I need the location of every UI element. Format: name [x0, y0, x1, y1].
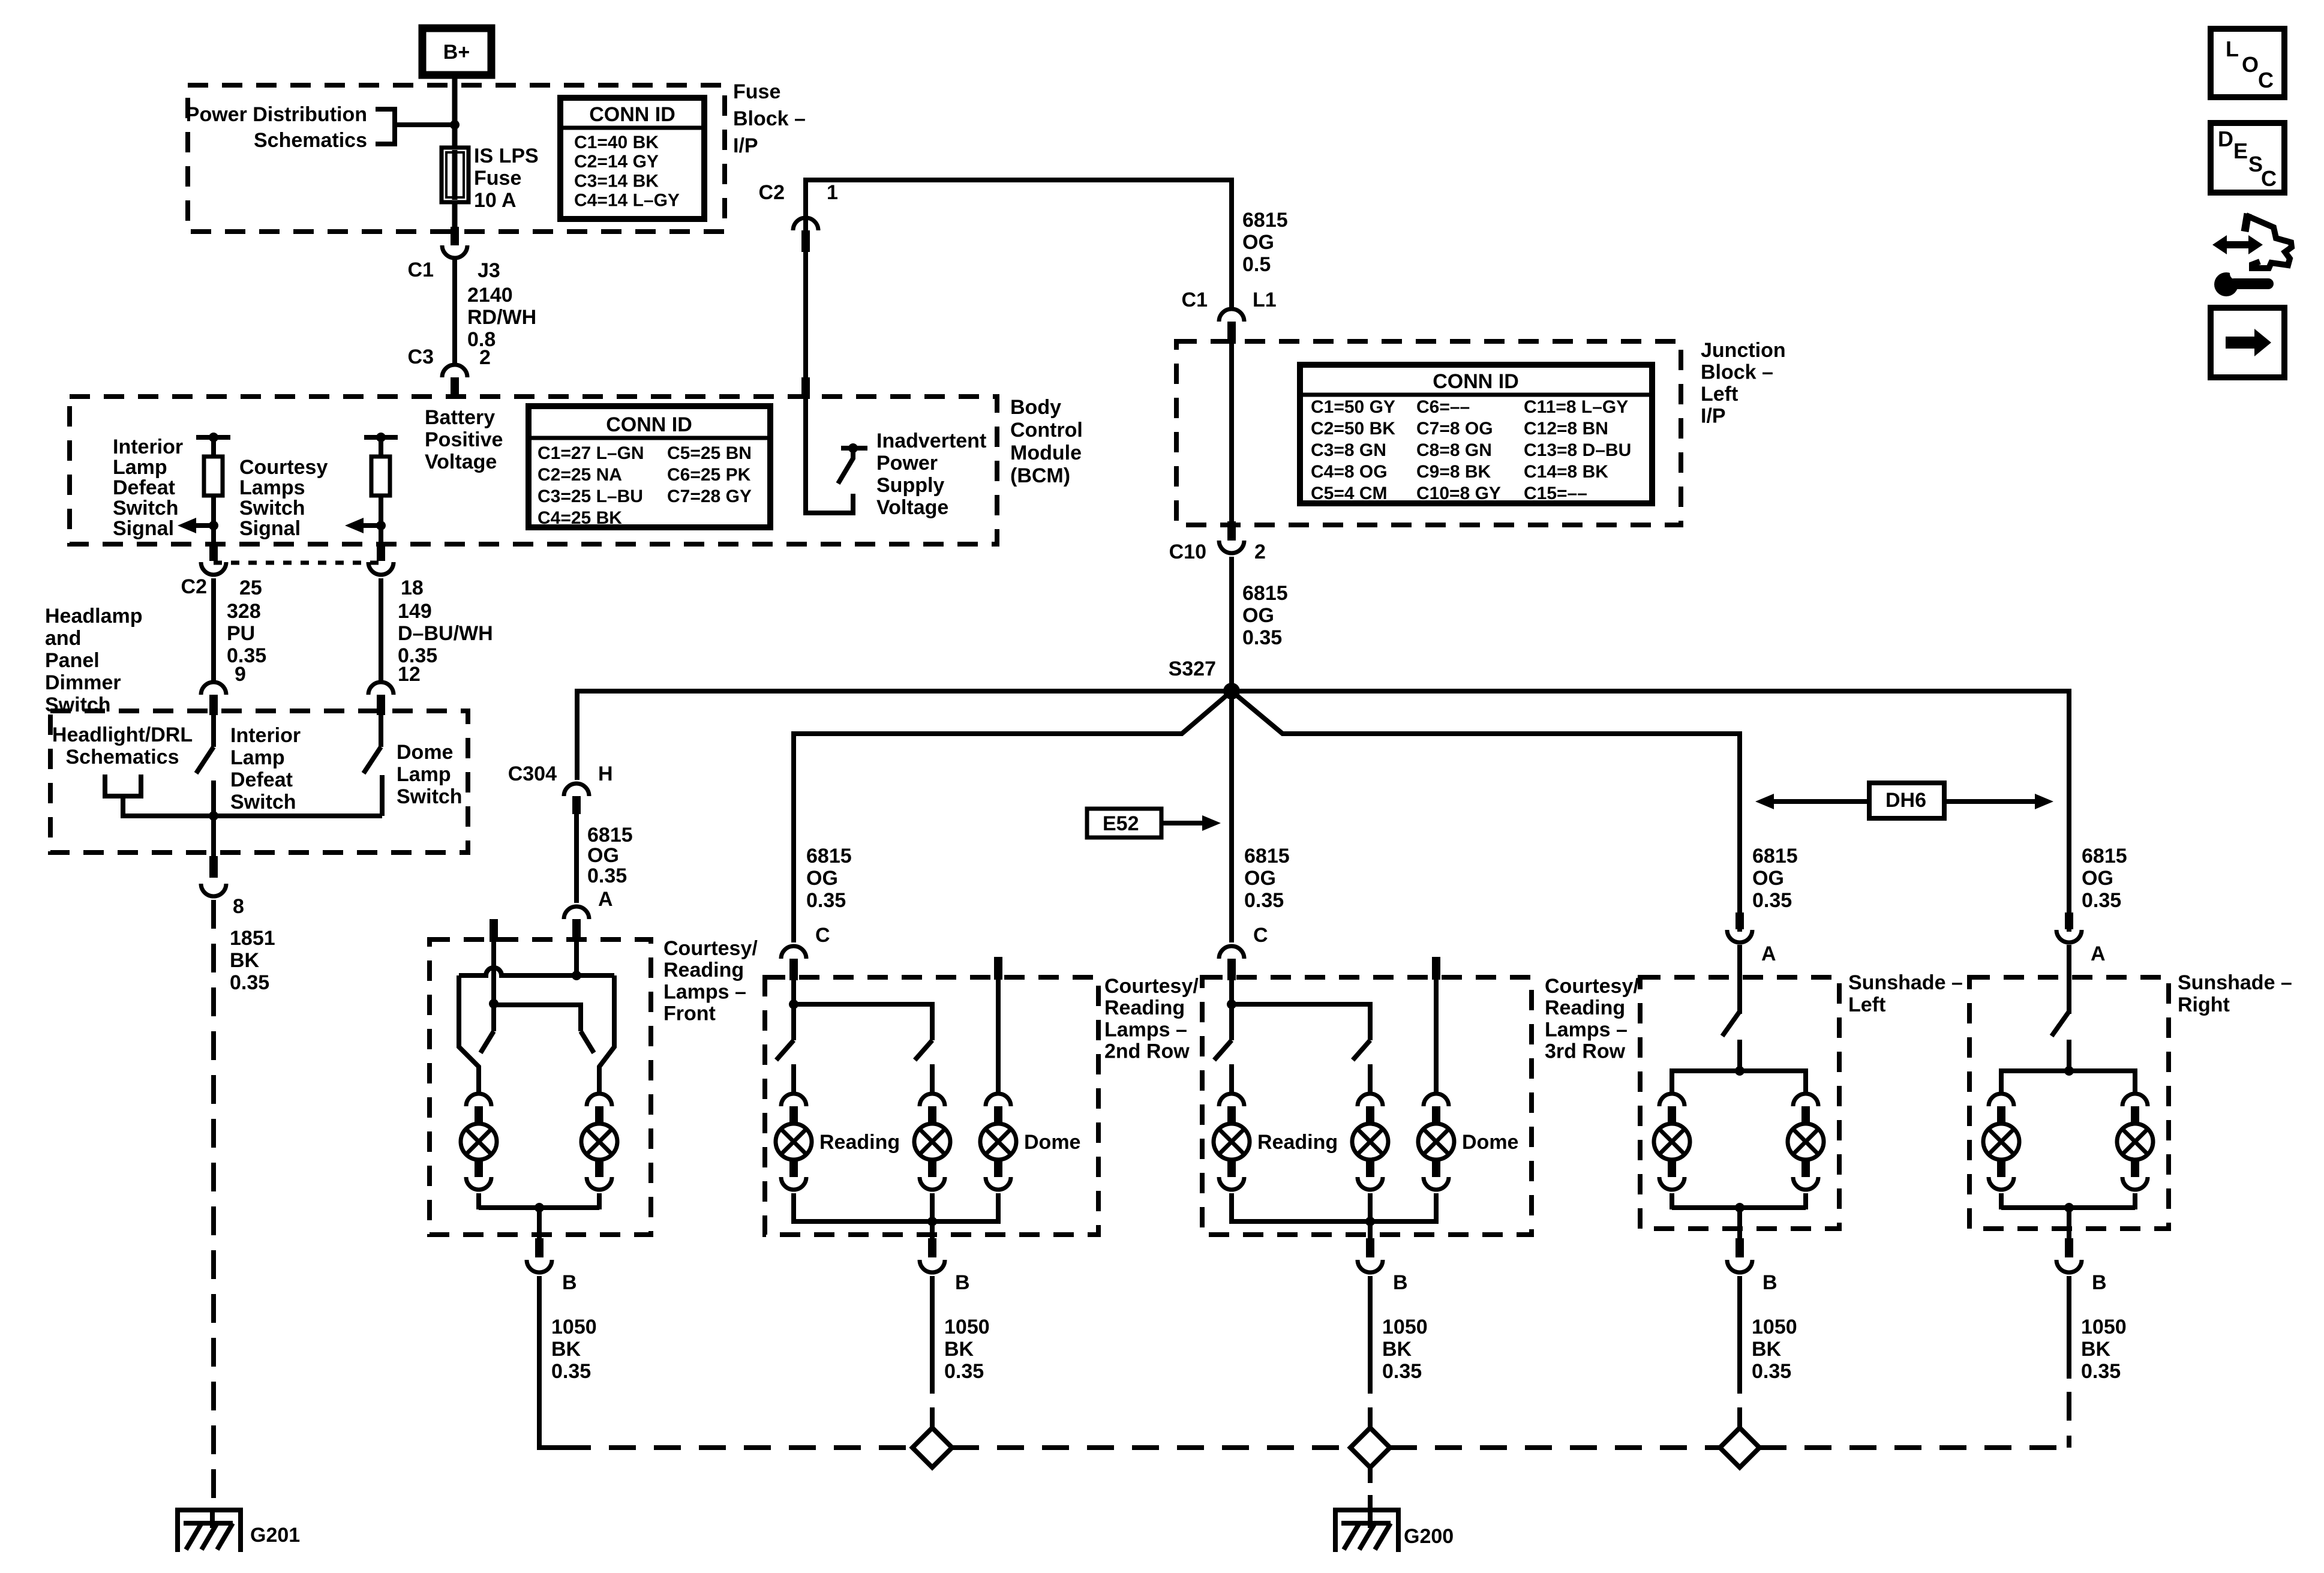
svg-text:C3=25 L–BU: C3=25 L–BU — [538, 487, 643, 506]
lamp left bulb Sunshade - Right — [1989, 1094, 2014, 1106]
svg-text:L: L — [2226, 37, 2239, 61]
wire T-bar to resistor — [379, 437, 383, 457]
icon vehicle double arrow — [2212, 235, 2263, 254]
wire 328 PU 0.35 — [211, 578, 216, 680]
wire B drop Sunshade - Left — [1737, 1208, 1742, 1238]
svg-text:C4=25 BK: C4=25 BK — [538, 508, 622, 528]
svg-text:D: D — [2218, 127, 2233, 151]
svg-text:C11=8 L–GY: C11=8 L–GY — [1524, 397, 1628, 417]
wire feed inside Courtesy/Reading Lamps - 3rd Row — [1229, 980, 1234, 1040]
svg-text:Front: Front — [663, 1002, 716, 1025]
svg-text:2: 2 — [479, 346, 491, 369]
svg-text:C1=40 BK: C1=40 BK — [574, 133, 659, 152]
connector C10 pin 2 (junction block output) — [1227, 521, 1236, 541]
connector pin 8 — [209, 856, 218, 878]
box Courtesy/Reading Lamps - 3rd Row (dashed) — [1202, 977, 1532, 1235]
svg-text:Voltage: Voltage — [425, 451, 497, 473]
ground G201 — [175, 1508, 243, 1512]
junction diamond 2nd row — [930, 1407, 935, 1429]
bracket headlight/DRL schematics — [105, 775, 141, 796]
wire link to middle lamp switch — [794, 1004, 932, 1040]
svg-text:I/P: I/P — [733, 134, 758, 157]
svg-text:Body: Body — [1010, 396, 1061, 419]
wire sunshade left drop — [1737, 731, 1742, 932]
table CONN ID (junction block) — [1300, 365, 1652, 503]
svg-text:L1: L1 — [1253, 289, 1277, 311]
wire 3rd row B 1050 BK — [1368, 1276, 1373, 1394]
svg-text:J3: J3 — [478, 259, 500, 282]
connector C1 / J3 (fuse block output) — [451, 227, 459, 245]
node dot switch feed — [489, 999, 499, 1008]
wire BCM C2-1 riser — [806, 180, 1232, 397]
svg-text:Headlamp: Headlamp — [45, 605, 143, 628]
svg-text:Left: Left — [1701, 383, 1738, 406]
svg-text:0.35: 0.35 — [1752, 1360, 1791, 1383]
wire resistor to junction — [211, 496, 216, 543]
svg-text:0.35: 0.35 — [227, 644, 266, 667]
box Junction Block - Left I/P (dashed) — [1176, 341, 1681, 525]
svg-text:DH6: DH6 — [1885, 789, 1926, 812]
pin stub front lamps switch feed — [490, 919, 498, 942]
stub C2-1 wire at BCM edge — [801, 377, 810, 399]
wire 2nd row B 1050 BK — [930, 1276, 935, 1394]
connector pin 12 — [368, 682, 394, 695]
lamp right bulb Sunshade - Right — [2122, 1094, 2148, 1106]
svg-text:Schematics: Schematics — [254, 129, 367, 152]
node B+ (battery positive terminal) — [422, 28, 491, 75]
dotted link connector C2 — [214, 561, 381, 565]
junction diamond sunshade left — [1737, 1407, 1742, 1429]
svg-text:C1: C1 — [1182, 289, 1208, 311]
svg-text:Lamps: Lamps — [239, 476, 305, 499]
svg-text:C6=––: C6=–– — [1416, 397, 1470, 417]
svg-text:1: 1 — [827, 181, 838, 204]
lamp middle bulb Courtesy/Reading Lamps - 3rd Row — [1358, 1094, 1383, 1106]
svg-text:B: B — [1393, 1271, 1408, 1294]
lamp front-left bulb — [466, 1094, 491, 1106]
svg-text:2nd Row: 2nd Row — [1104, 1040, 1190, 1063]
connector C304 / H — [564, 784, 589, 796]
svg-text:C304: C304 — [508, 763, 557, 785]
svg-text:C: C — [815, 924, 830, 947]
svg-text:Courtesy/: Courtesy/ — [1545, 975, 1639, 998]
svg-text:Battery: Battery — [425, 406, 495, 429]
wire S327 to 3rd row drop — [1229, 691, 1234, 942]
svg-text:Defeat: Defeat — [230, 769, 293, 791]
svg-text:C1: C1 — [408, 259, 434, 281]
svg-text:149: 149 — [398, 600, 432, 623]
svg-text:and: and — [45, 627, 81, 650]
lamp dome bulb Courtesy/Reading Lamps - 2nd Row — [986, 1094, 1011, 1106]
connector C1 / L1 (junction block input) — [1219, 309, 1244, 322]
switch dome lamp — [379, 715, 383, 747]
switch reading lamp Courtesy/Reading Lamps - 3rd Row — [1214, 1040, 1232, 1060]
svg-text:Schematics: Schematics — [66, 746, 179, 769]
icon LOC box — [2211, 29, 2284, 97]
svg-text:C14=8 BK: C14=8 BK — [1524, 462, 1608, 482]
svg-text:B: B — [955, 1271, 970, 1294]
lamp right bulb Sunshade - Left — [1793, 1094, 1818, 1106]
svg-text:G201: G201 — [250, 1524, 300, 1547]
switch front left lamp — [481, 1031, 494, 1053]
svg-text:8: 8 — [233, 895, 244, 918]
svg-text:B: B — [1762, 1271, 1777, 1294]
wire front B drop — [537, 1208, 542, 1238]
wire front B to ground bus — [539, 1276, 573, 1448]
svg-text:1050: 1050 — [1382, 1316, 1428, 1338]
switch middle lamp Courtesy/Reading Lamps - 2nd Row — [915, 1040, 932, 1060]
connector pin B sunshade right — [2065, 1238, 2073, 1257]
svg-text:6815: 6815 — [1242, 209, 1288, 232]
svg-text:0.5: 0.5 — [1242, 253, 1271, 276]
svg-text:Voltage: Voltage — [876, 496, 948, 519]
wire internal bus dimmer switch — [123, 813, 382, 818]
wire to power distribution bracket — [397, 122, 455, 127]
svg-text:Dome: Dome — [1024, 1131, 1080, 1154]
icon DESC box — [2211, 123, 2284, 193]
svg-text:Reading: Reading — [663, 959, 744, 981]
table CONN ID (BCM) — [529, 406, 770, 527]
svg-text:BK: BK — [1752, 1338, 1782, 1361]
svg-text:1050: 1050 — [551, 1316, 597, 1338]
svg-text:(BCM): (BCM) — [1010, 464, 1070, 487]
svg-text:C2=25 NA: C2=25 NA — [538, 465, 622, 485]
fuse F1 IS LPS 10A — [442, 148, 469, 202]
wire B drop Courtesy/Reading Lamps - 2nd Row — [930, 1221, 935, 1238]
svg-text:CONN ID: CONN ID — [589, 103, 675, 126]
svg-text:Courtesy/: Courtesy/ — [663, 937, 758, 960]
svg-text:C2: C2 — [759, 181, 785, 204]
node dot A feed — [572, 971, 581, 980]
svg-text:Lamps –: Lamps – — [1545, 1018, 1628, 1041]
svg-text:RD/WH: RD/WH — [467, 306, 536, 329]
node dot B rail Courtesy/Reading Lamps - 2nd Row — [927, 1217, 937, 1226]
svg-text:OG: OG — [2082, 867, 2113, 890]
svg-text:Reading: Reading — [819, 1131, 900, 1154]
switch inadvertent power supply (internal) — [841, 446, 867, 451]
wire dome lamp feed — [996, 980, 1001, 1092]
wire T-bar to resistor — [211, 437, 216, 457]
svg-text:1050: 1050 — [1752, 1316, 1797, 1338]
svg-text:Inadvertent: Inadvertent — [876, 430, 986, 452]
wire 6815 OG 0.35 to front lamps — [574, 813, 579, 903]
svg-text:O: O — [2242, 52, 2259, 77]
svg-text:0.35: 0.35 — [1752, 889, 1792, 912]
node dot B rail Courtesy/Reading Lamps - 3rd Row — [1365, 1217, 1375, 1226]
icon next-page arrow box — [2211, 308, 2284, 377]
connector pin 9 — [201, 682, 226, 695]
lamp front-right bulb — [587, 1094, 612, 1106]
wire junction block internal — [1229, 341, 1234, 525]
svg-text:Lamps –: Lamps – — [1104, 1018, 1187, 1041]
svg-text:0.35: 0.35 — [2081, 1360, 2121, 1383]
wire front bulbs to B rail — [479, 1205, 599, 1210]
wire front bulbs feed rail (hops switch wire) — [459, 968, 614, 975]
node DH6 reference box — [1869, 783, 1944, 818]
connector pin A Sunshade - Right — [2065, 912, 2073, 929]
terminal T-bar courtesy lamps — [364, 435, 398, 440]
wire fuse to C1 connector — [452, 202, 458, 228]
svg-text:12: 12 — [398, 663, 421, 686]
connector pin B front lamps — [535, 1238, 544, 1257]
svg-text:BK: BK — [1382, 1338, 1412, 1361]
svg-text:C4=8 OG: C4=8 OG — [1311, 462, 1388, 482]
wire BCM C2-1 internal feed — [806, 397, 853, 513]
wire 1851 BK 0.35 (dashed to G201) — [211, 900, 216, 1508]
wire sunshade left B 1050 BK — [1737, 1276, 1742, 1394]
svg-text:Lamp: Lamp — [113, 456, 167, 479]
wire bulbs to B rail Sunshade - Left — [1672, 1205, 1806, 1210]
svg-text:E52: E52 — [1103, 812, 1139, 835]
arrow interior lamp defeat signal — [178, 518, 196, 533]
box Headlamp and Panel Dimmer Switch (dashed) — [50, 711, 468, 852]
wire upper rail right drop sunshade right — [2067, 689, 2071, 932]
svg-text:1851: 1851 — [230, 927, 275, 950]
wire feed inside Courtesy/Reading Lamps - 2nd Row — [791, 980, 796, 1040]
svg-text:OG: OG — [1242, 604, 1274, 627]
box Sunshade - Left (dashed) — [1640, 977, 1839, 1229]
svg-text:1050: 1050 — [944, 1316, 990, 1338]
svg-text:Block –: Block – — [733, 107, 806, 130]
connector C2 pin 1 (BCM top) — [793, 218, 818, 230]
svg-text:6815: 6815 — [587, 824, 633, 846]
svg-text:328: 328 — [227, 600, 261, 623]
svg-text:C13=8 D–BU: C13=8 D–BU — [1524, 440, 1631, 460]
lamp left bulb Sunshade - Left — [1659, 1094, 1685, 1106]
svg-text:BK: BK — [551, 1338, 581, 1361]
svg-text:Fuse: Fuse — [474, 167, 521, 190]
lamp reading bulb Courtesy/Reading Lamps - 3rd Row — [1219, 1094, 1244, 1106]
svg-text:Junction: Junction — [1701, 339, 1786, 362]
svg-text:C8=8 GN: C8=8 GN — [1416, 440, 1492, 460]
svg-text:Interior: Interior — [230, 724, 301, 747]
ground G200 — [1333, 1508, 1401, 1512]
wire 149 D-BU/WH 0.35 — [379, 578, 383, 680]
svg-text:C15=––: C15=–– — [1524, 484, 1587, 503]
wire B drop Sunshade - Right — [2067, 1208, 2071, 1238]
wire 2nd row drop — [791, 731, 796, 942]
svg-text:B: B — [562, 1271, 577, 1294]
wire bus to G200 — [1368, 1467, 1373, 1483]
svg-text:Module: Module — [1010, 442, 1082, 464]
svg-text:C10: C10 — [1169, 541, 1206, 563]
svg-text:C3=8 GN: C3=8 GN — [1311, 440, 1386, 460]
svg-text:A: A — [598, 888, 613, 911]
wire A to switch — [2067, 945, 2071, 1014]
svg-text:Sunshade –: Sunshade – — [2178, 971, 2292, 994]
svg-text:Dome: Dome — [397, 741, 453, 764]
connector pin B sunshade left — [1736, 1238, 1744, 1257]
pin stub dome feed Courtesy/Reading Lamps - 3rd Row — [1432, 957, 1440, 980]
svg-text:C: C — [2261, 166, 2277, 191]
svg-text:BK: BK — [2081, 1338, 2111, 1361]
wire bulbs to B rail Courtesy/Reading Lamps - 2nd Row — [794, 1219, 998, 1224]
wire resistor to junction — [379, 496, 383, 543]
svg-text:0.35: 0.35 — [1382, 1360, 1422, 1383]
svg-text:Power Distribution: Power Distribution — [186, 103, 367, 126]
svg-text:C7=28 GY: C7=28 GY — [667, 487, 752, 506]
svg-text:0.35: 0.35 — [1242, 626, 1282, 649]
svg-text:25: 25 — [239, 577, 262, 599]
switch middle lamp Courtesy/Reading Lamps - 3rd Row — [1353, 1040, 1370, 1060]
resistor R1 interior lamp defeat — [204, 457, 223, 496]
svg-text:Headlight/DRL: Headlight/DRL — [52, 724, 193, 746]
junction diamond 3rd row — [1368, 1407, 1373, 1429]
connector pin A Sunshade - Left — [1736, 912, 1744, 929]
svg-text:C9=8 BK: C9=8 BK — [1416, 462, 1491, 482]
splice S327 — [1223, 683, 1240, 700]
connector C2 pin 18 — [377, 543, 385, 561]
connector pin B 3rd row — [1366, 1238, 1374, 1257]
pin stub dome feed Courtesy/Reading Lamps - 2nd Row — [994, 957, 1002, 980]
wire A to switch — [1737, 945, 1742, 1014]
switch Sunshade - Right — [2052, 1011, 2069, 1036]
wire sunshade right B 1050 BK — [2067, 1276, 2071, 1379]
wire left bulb feed — [459, 975, 479, 1092]
arrow courtesy lamps switch signal — [345, 518, 364, 533]
resistor R2 courtesy lamps — [371, 457, 390, 496]
svg-text:IS LPS: IS LPS — [474, 145, 539, 167]
wire B+ to fuse — [452, 75, 458, 148]
svg-text:B+: B+ — [443, 41, 470, 64]
svg-text:OG: OG — [806, 867, 838, 890]
node dot B rail Sunshade - Right — [2064, 1203, 2074, 1212]
svg-text:1050: 1050 — [2081, 1316, 2127, 1338]
lamp dome bulb Courtesy/Reading Lamps - 3rd Row — [1424, 1094, 1449, 1106]
wire right bulb feed — [599, 975, 614, 1092]
svg-text:6815: 6815 — [806, 845, 852, 867]
wire S327 right diagonal — [1232, 691, 1740, 734]
svg-text:C5=4 CM: C5=4 CM — [1311, 484, 1388, 503]
svg-text:H: H — [598, 763, 613, 785]
svg-text:Positive: Positive — [425, 428, 503, 451]
wire S327 left diagonal — [794, 691, 1232, 734]
icon vehicle outline — [2245, 214, 2248, 232]
svg-text:0.35: 0.35 — [2082, 889, 2121, 912]
svg-text:Lamp: Lamp — [397, 763, 451, 786]
wire dimmer switch to pin 8 — [211, 816, 216, 856]
svg-text:Switch: Switch — [239, 497, 305, 520]
svg-text:Fuse: Fuse — [733, 80, 780, 103]
svg-text:C2=14 GY: C2=14 GY — [574, 152, 659, 172]
svg-text:C2: C2 — [181, 575, 207, 598]
wire link to middle lamp switch — [1232, 1004, 1370, 1040]
svg-text:0.35: 0.35 — [551, 1360, 591, 1383]
svg-text:C1=50 GY: C1=50 GY — [1311, 397, 1395, 417]
svg-text:C2=50 BK: C2=50 BK — [1311, 419, 1395, 439]
wire sunshade right corner (dashed) — [2067, 1392, 2071, 1448]
wire bulbs to B rail Sunshade - Right — [2001, 1205, 2135, 1210]
arrow E52 to wire — [1202, 815, 1221, 831]
svg-text:Left: Left — [1848, 993, 1885, 1016]
svg-text:Reading: Reading — [1257, 1131, 1338, 1154]
svg-text:A: A — [2091, 942, 2106, 965]
svg-text:Signal: Signal — [113, 517, 174, 540]
svg-text:Dimmer: Dimmer — [45, 671, 121, 694]
svg-text:Sunshade –: Sunshade – — [1848, 971, 1963, 994]
svg-text:OG: OG — [1752, 867, 1784, 890]
wire 2140 RD/WH 0.8 — [452, 260, 457, 364]
svg-text:0.35: 0.35 — [230, 971, 269, 994]
svg-text:6815: 6815 — [1244, 845, 1290, 867]
svg-text:Block –: Block – — [1701, 361, 1773, 384]
svg-text:OG: OG — [1242, 231, 1274, 254]
lamp middle bulb Courtesy/Reading Lamps - 2nd Row — [920, 1094, 945, 1106]
svg-text:I/P: I/P — [1701, 405, 1726, 428]
svg-text:Control: Control — [1010, 419, 1083, 442]
svg-text:Defeat: Defeat — [113, 476, 175, 499]
svg-text:D–BU/WH: D–BU/WH — [398, 622, 493, 645]
svg-text:Courtesy: Courtesy — [239, 456, 328, 479]
node dot Sunshade - Left — [1735, 1066, 1744, 1076]
node junction dot on B+ feed — [450, 120, 460, 130]
terminal T-bar interior lamp defeat — [196, 435, 230, 440]
bracket for power distribution schematics — [376, 109, 395, 144]
lamp reading bulb Courtesy/Reading Lamps - 2nd Row — [781, 1094, 806, 1106]
svg-text:Supply: Supply — [876, 474, 944, 497]
svg-text:A: A — [1761, 942, 1776, 965]
svg-text:G200: G200 — [1404, 1525, 1454, 1548]
svg-text:OG: OG — [1244, 867, 1276, 890]
svg-text:0.35: 0.35 — [806, 889, 846, 912]
svg-text:Reading: Reading — [1104, 996, 1185, 1019]
svg-text:Panel: Panel — [45, 649, 100, 672]
node dot dimmer bus — [209, 811, 218, 821]
icon wrench — [2214, 272, 2238, 296]
svg-text:0.35: 0.35 — [944, 1360, 984, 1383]
switch interior lamp defeat — [211, 715, 216, 747]
switch Sunshade - Left — [1722, 1011, 1740, 1036]
arrow DH6 left — [1755, 794, 1774, 809]
svg-text:C: C — [2258, 68, 2274, 92]
svg-text:BK: BK — [944, 1338, 974, 1361]
svg-text:3rd Row: 3rd Row — [1545, 1040, 1626, 1063]
svg-text:C3: C3 — [408, 346, 434, 368]
wire switch link rail — [494, 1005, 581, 1031]
wire switch column — [491, 942, 496, 1031]
node dot Sunshade - Right — [2064, 1066, 2074, 1076]
svg-text:Reading: Reading — [1545, 996, 1625, 1019]
node dot courtesy lamps — [376, 521, 386, 530]
wire B drop Courtesy/Reading Lamps - 3rd Row — [1368, 1221, 1373, 1238]
switch reading lamp Courtesy/Reading Lamps - 2nd Row — [776, 1040, 794, 1060]
svg-text:C: C — [1253, 924, 1268, 947]
wire junction to S327 — [1229, 557, 1234, 691]
svg-text:6815: 6815 — [1752, 845, 1798, 867]
svg-text:Lamp: Lamp — [230, 746, 285, 769]
wire upper rail left drop to C304 — [575, 689, 580, 780]
svg-text:Right: Right — [2178, 993, 2230, 1016]
svg-text:E: E — [2233, 139, 2248, 163]
connector C3 pin 2 (BCM input) — [442, 365, 467, 377]
svg-text:6815: 6815 — [2082, 845, 2127, 867]
svg-text:Switch: Switch — [113, 497, 179, 520]
wire bulb feed rail Sunshade - Left — [1672, 1071, 1806, 1092]
svg-text:18: 18 — [401, 577, 424, 599]
svg-text:2140: 2140 — [467, 284, 513, 307]
box Body Control Module BCM (dashed) — [70, 397, 997, 544]
svg-text:0.35: 0.35 — [587, 864, 627, 887]
box Sunshade - Right (dashed) — [1969, 977, 2169, 1229]
svg-text:Lamps –: Lamps – — [663, 980, 746, 1003]
node dot B rail Sunshade - Left — [1735, 1203, 1744, 1212]
connector pin B 2nd row — [928, 1238, 936, 1257]
switch front right lamp — [581, 1031, 594, 1053]
svg-text:B: B — [2092, 1271, 2107, 1294]
svg-text:9: 9 — [235, 663, 246, 686]
box Fuse Block - I/P (dashed) — [188, 85, 725, 232]
svg-text:Interior: Interior — [113, 436, 183, 458]
